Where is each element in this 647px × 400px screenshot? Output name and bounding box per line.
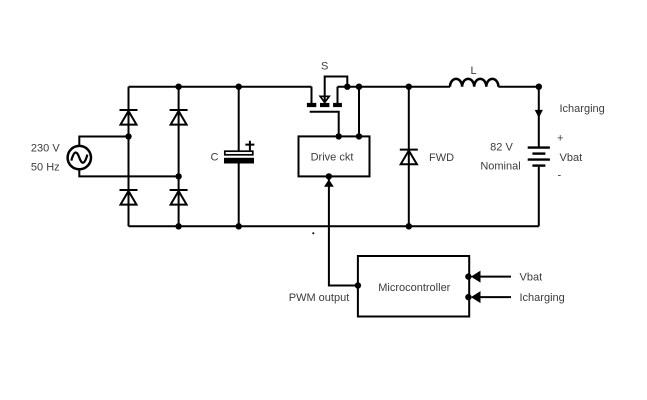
capacitor plus sign bbox=[245, 141, 254, 151]
svg-text:82 V: 82 V bbox=[490, 141, 513, 153]
wire top rail left segment bbox=[129, 86, 312, 88]
svg-text:Vbat: Vbat bbox=[560, 152, 583, 164]
wire battery bottom lead bbox=[538, 167, 540, 227]
mosfet S body wire loop bbox=[325, 77, 348, 103]
node body loop junction bbox=[344, 84, 350, 90]
wire Icharging sense input bbox=[480, 296, 511, 298]
svg-text:50 Hz: 50 Hz bbox=[31, 161, 60, 173]
drive circuit box U1 bbox=[299, 136, 370, 176]
diode FWD bbox=[400, 150, 418, 165]
node gate entry on drive box bbox=[336, 133, 342, 139]
battery BT1 short plate 1 bbox=[532, 152, 545, 154]
svg-text:Icharging: Icharging bbox=[560, 103, 605, 115]
arrow Icharging into micro bbox=[471, 291, 481, 303]
wire capacitor top lead bbox=[238, 87, 240, 151]
svg-text:+: + bbox=[557, 132, 563, 144]
svg-text:Icharging: Icharging bbox=[520, 292, 565, 304]
node PWM entry on drive box bbox=[326, 173, 332, 179]
node top rail FWD junction bbox=[406, 84, 412, 90]
node bottom rail right column junction bbox=[175, 223, 181, 229]
diode D1 (bridge upper-left) bbox=[120, 110, 138, 125]
diode D2 (bridge upper-right) bbox=[170, 110, 188, 125]
battery BT1 short plate 2 bbox=[532, 164, 545, 166]
node PWM exit on micro box bbox=[355, 282, 361, 288]
wire Vbat sense input bbox=[480, 276, 511, 278]
wire source node to drive circuit bbox=[358, 87, 360, 137]
svg-text:S: S bbox=[321, 60, 328, 72]
node top rail right column junction bbox=[175, 84, 181, 90]
node AC bottom to bridge junction bbox=[175, 173, 181, 179]
svg-text:L: L bbox=[470, 65, 476, 77]
wire top rail right segment (inductor to battery corner) bbox=[498, 86, 538, 88]
svg-text:Nominal: Nominal bbox=[480, 160, 520, 172]
arrow Icharging current direction bbox=[535, 110, 543, 118]
mosfet S gate line bbox=[310, 112, 339, 137]
wire bridge left column bbox=[128, 87, 130, 227]
wire AC source top lead bbox=[79, 137, 128, 146]
node top-right corner junction bbox=[536, 84, 542, 90]
svg-text:Microcontroller: Microcontroller bbox=[378, 282, 450, 294]
inductor L bbox=[450, 79, 498, 87]
mosfet S source stub bbox=[337, 87, 339, 103]
node Vbat entry on micro box bbox=[465, 273, 471, 279]
node bottom rail FWD junction bbox=[406, 223, 412, 229]
arrow PWM into drive box bbox=[324, 179, 334, 186]
battery BT1 long plate 1 bbox=[528, 146, 550, 148]
svg-text:Drive ckt: Drive ckt bbox=[311, 151, 354, 163]
node AC top to bridge junction bbox=[125, 133, 131, 139]
mosfet S source contact bar bbox=[333, 103, 342, 107]
capacitor C bottom plate bbox=[224, 158, 254, 164]
wire FWD column bbox=[408, 87, 410, 227]
microcontroller box U2 bbox=[358, 256, 469, 317]
svg-text:230 V: 230 V bbox=[31, 142, 60, 154]
mosfet S body contact bar bbox=[320, 103, 329, 107]
mosfet S drain stub bbox=[311, 87, 313, 103]
mosfet S body arrow bbox=[320, 96, 329, 102]
diode D3 (bridge lower-left) bbox=[120, 190, 138, 205]
capacitor C top plate bbox=[225, 151, 253, 155]
node source entry on drive box bbox=[356, 133, 362, 139]
node source-drive junction bbox=[356, 84, 362, 90]
diode D4 (bridge lower-right) bbox=[170, 190, 188, 205]
AC source sine wave bbox=[71, 152, 87, 162]
wire battery top lead bbox=[538, 87, 540, 147]
mosfet S drain contact bar bbox=[307, 103, 316, 107]
svg-text:FWD: FWD bbox=[429, 152, 454, 164]
wire bottom rail bbox=[129, 225, 539, 227]
wire capacitor bottom lead bbox=[238, 164, 240, 227]
wire bridge right column bbox=[178, 87, 180, 227]
node Icharging entry on micro box bbox=[465, 294, 471, 300]
arrow Vbat into micro bbox=[471, 271, 481, 283]
wire AC source bottom lead bbox=[79, 169, 178, 176]
svg-text:-: - bbox=[558, 169, 562, 181]
stray period mark bbox=[312, 232, 314, 234]
svg-text:C: C bbox=[211, 151, 219, 163]
svg-text:PWM output: PWM output bbox=[289, 292, 350, 304]
wire top rail right segment (switch to inductor) bbox=[338, 86, 451, 88]
node top rail capacitor junction bbox=[236, 84, 242, 90]
svg-text:Vbat: Vbat bbox=[520, 271, 543, 283]
wire PWM output line bbox=[329, 176, 358, 285]
battery BT1 long plate 2 bbox=[528, 158, 550, 160]
node bottom rail capacitor junction bbox=[236, 223, 242, 229]
AC source V1 circle bbox=[68, 146, 91, 169]
